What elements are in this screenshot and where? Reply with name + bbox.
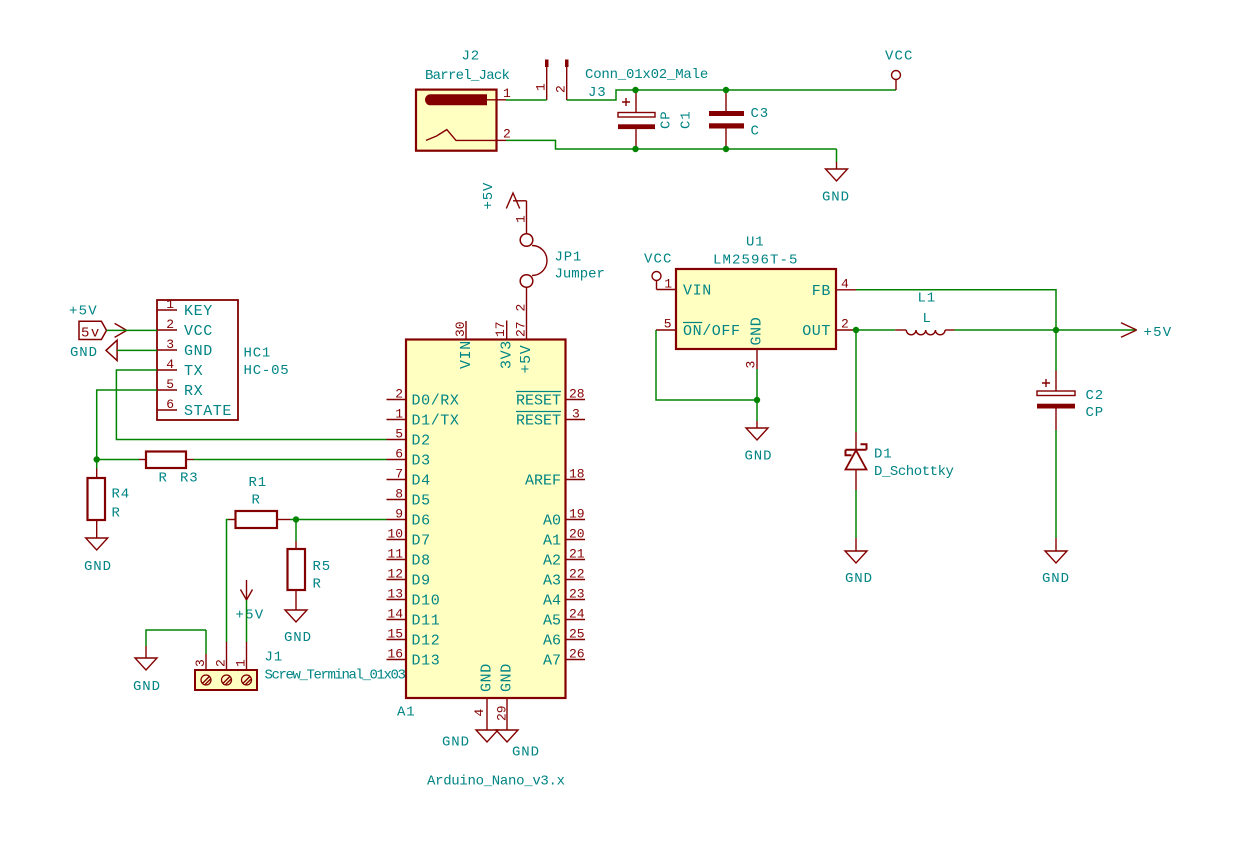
svg-text:1: 1 [664, 277, 672, 292]
svg-text:A0: A0 [543, 513, 561, 530]
svg-text:23: 23 [569, 587, 585, 602]
svg-text:ON/OFF: ON/OFF [683, 323, 741, 340]
svg-text:D5: D5 [412, 493, 431, 510]
svg-text:24: 24 [569, 607, 585, 622]
svg-text:D12: D12 [412, 633, 441, 650]
svg-text:A7: A7 [543, 653, 561, 670]
svg-text:R: R [252, 493, 261, 509]
svg-text:GND: GND [70, 345, 98, 361]
svg-text:5: 5 [664, 317, 672, 332]
svg-text:D10: D10 [412, 593, 441, 610]
svg-text:18: 18 [569, 467, 585, 482]
svg-text:GND: GND [822, 190, 850, 206]
svg-text:19: 19 [569, 507, 585, 522]
svg-text:HC1: HC1 [244, 346, 272, 362]
svg-text:A5: A5 [543, 613, 561, 630]
svg-text:KEY: KEY [184, 303, 213, 320]
svg-text:22: 22 [569, 567, 585, 582]
svg-text:GND: GND [745, 449, 773, 465]
svg-text:Arduino_Nano_v3.x: Arduino_Nano_v3.x [427, 774, 565, 790]
svg-text:LM2596T-5: LM2596T-5 [713, 253, 799, 269]
svg-text:7: 7 [395, 467, 403, 482]
svg-text:D6: D6 [412, 513, 431, 530]
svg-text:TX: TX [184, 363, 203, 380]
svg-text:C3: C3 [751, 106, 769, 122]
svg-text:VCC: VCC [885, 49, 914, 65]
svg-text:R5: R5 [313, 559, 331, 575]
svg-text:VIN: VIN [458, 340, 475, 369]
svg-text:1: 1 [166, 297, 174, 312]
svg-text:4: 4 [166, 357, 174, 372]
svg-text:+5V: +5V [69, 304, 98, 320]
svg-text:GND: GND [442, 735, 470, 751]
svg-text:D13: D13 [412, 653, 441, 670]
svg-text:R: R [112, 506, 121, 522]
svg-text:+5V: +5V [1144, 325, 1173, 341]
svg-text:A1: A1 [397, 705, 415, 721]
svg-text:Conn_01x02_Male: Conn_01x02_Male [585, 67, 708, 83]
svg-text:RESET: RESET [516, 413, 561, 430]
svg-text:30: 30 [453, 321, 468, 337]
svg-text:3: 3 [572, 407, 580, 422]
svg-text:GND: GND [749, 317, 766, 346]
svg-text:1: 1 [234, 659, 249, 667]
svg-text:R4: R4 [112, 487, 130, 503]
svg-text:27: 27 [514, 321, 529, 337]
svg-text:4: 4 [472, 709, 487, 717]
svg-text:+5V: +5V [481, 182, 497, 210]
svg-text:CP: CP [1086, 405, 1104, 421]
svg-text:GND: GND [133, 679, 161, 695]
svg-text:4: 4 [841, 277, 849, 292]
svg-text:10: 10 [387, 527, 403, 542]
svg-text:+5V: +5V [236, 608, 265, 624]
svg-text:D1/TX: D1/TX [412, 413, 460, 430]
svg-text:3: 3 [166, 337, 174, 352]
svg-text:GND: GND [512, 745, 540, 761]
svg-text:RX: RX [184, 383, 203, 400]
svg-text:5v: 5v [81, 326, 101, 342]
svg-text:29: 29 [495, 705, 510, 721]
svg-text:26: 26 [569, 647, 585, 662]
svg-text:VIN: VIN [683, 283, 712, 300]
svg-text:2: 2 [395, 387, 403, 402]
svg-text:OUT: OUT [802, 323, 831, 340]
svg-text:1: 1 [534, 83, 549, 91]
svg-text:3: 3 [744, 361, 759, 369]
svg-text:Screw_Terminal_01x03: Screw_Terminal_01x03 [265, 668, 406, 684]
svg-text:CP: CP [659, 111, 675, 129]
svg-text:1: 1 [395, 407, 403, 422]
svg-text:A1: A1 [543, 533, 561, 550]
svg-text:D1: D1 [874, 447, 892, 463]
svg-text:D2: D2 [412, 433, 431, 450]
svg-text:2: 2 [166, 317, 174, 332]
svg-text:12: 12 [387, 567, 403, 582]
svg-text:J2: J2 [462, 49, 480, 65]
svg-text:17: 17 [493, 321, 508, 337]
svg-text:21: 21 [569, 547, 585, 562]
svg-text:D_Schottky: D_Schottky [874, 464, 954, 480]
svg-text:GND: GND [845, 571, 873, 587]
svg-text:D11: D11 [412, 613, 441, 630]
svg-text:25: 25 [569, 627, 585, 642]
svg-text:L1: L1 [918, 291, 936, 307]
svg-text:VCC: VCC [644, 252, 673, 268]
svg-text:1: 1 [503, 86, 511, 101]
svg-text:GND: GND [284, 630, 312, 646]
svg-text:RESET: RESET [516, 393, 561, 410]
svg-text:3: 3 [193, 659, 208, 667]
svg-text:15: 15 [387, 627, 403, 642]
svg-text:C2: C2 [1086, 388, 1104, 404]
svg-text:A2: A2 [543, 553, 561, 570]
svg-text:+5V: +5V [518, 345, 535, 374]
svg-text:GND: GND [84, 559, 112, 575]
svg-text:J3: J3 [588, 85, 606, 101]
svg-text:D3: D3 [412, 453, 431, 470]
svg-text:Barrel_Jack: Barrel_Jack [425, 68, 510, 84]
svg-text:R1: R1 [249, 475, 267, 491]
svg-text:GND: GND [1042, 571, 1070, 587]
svg-text:GND: GND [479, 663, 496, 692]
svg-text:GND: GND [499, 663, 516, 692]
svg-text:R: R [313, 577, 322, 593]
svg-text:L: L [923, 311, 932, 327]
svg-text:2: 2 [554, 85, 569, 93]
svg-text:6: 6 [166, 397, 174, 412]
svg-text:D7: D7 [412, 533, 431, 550]
svg-text:D8: D8 [412, 553, 431, 570]
svg-text:JP1: JP1 [555, 250, 583, 266]
svg-text:U1: U1 [746, 235, 764, 251]
svg-text:5: 5 [166, 377, 174, 392]
svg-text:STATE: STATE [184, 403, 232, 420]
svg-text:R: R [159, 471, 168, 487]
svg-text:28: 28 [569, 387, 585, 402]
svg-text:FB: FB [812, 283, 831, 300]
svg-text:A6: A6 [543, 633, 561, 650]
svg-text:GND: GND [184, 343, 213, 360]
svg-text:11: 11 [387, 547, 403, 562]
svg-text:6: 6 [395, 447, 403, 462]
svg-text:2: 2 [841, 317, 849, 332]
svg-text:Jumper: Jumper [555, 267, 605, 283]
svg-text:R3: R3 [180, 471, 198, 487]
svg-text:2: 2 [514, 304, 529, 312]
svg-text:D9: D9 [412, 573, 431, 590]
svg-text:D4: D4 [412, 473, 431, 490]
svg-text:8: 8 [395, 487, 403, 502]
svg-text:AREF: AREF [525, 473, 561, 490]
svg-text:2: 2 [503, 127, 511, 142]
svg-text:3V3: 3V3 [498, 340, 515, 369]
svg-text:9: 9 [395, 507, 403, 522]
svg-text:J1: J1 [265, 650, 283, 666]
svg-text:A4: A4 [543, 593, 561, 610]
svg-text:16: 16 [387, 647, 403, 662]
svg-text:13: 13 [387, 587, 403, 602]
svg-text:14: 14 [387, 607, 403, 622]
svg-text:VCC: VCC [184, 323, 213, 340]
svg-text:20: 20 [569, 527, 585, 542]
svg-text:C: C [751, 124, 760, 140]
svg-text:HC-05: HC-05 [244, 363, 290, 379]
svg-text:2: 2 [214, 659, 229, 667]
svg-text:A3: A3 [543, 573, 561, 590]
svg-text:D0/RX: D0/RX [412, 393, 460, 410]
svg-text:C1: C1 [679, 111, 695, 129]
svg-text:1: 1 [514, 215, 529, 223]
svg-text:5: 5 [395, 427, 403, 442]
